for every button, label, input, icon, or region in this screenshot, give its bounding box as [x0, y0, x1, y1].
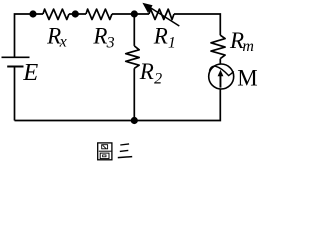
- meter M: [209, 64, 234, 89]
- svg-text:Rm: Rm: [229, 28, 254, 55]
- battery E plate long: [2, 56, 30, 58]
- node dot C: [131, 10, 138, 17]
- battery E plate short: [7, 66, 23, 68]
- wire R2 branch: [133, 14, 135, 46]
- resistor R3: [86, 9, 112, 19]
- wire left bottom: [14, 67, 16, 121]
- resistor Rm: [211, 35, 225, 58]
- svg-text:E: E: [22, 59, 38, 86]
- wire top right: [174, 14, 220, 35]
- svg-text:R1: R1: [153, 24, 176, 52]
- resistor R1 (variable): [149, 9, 174, 19]
- caption 圖三 figure 3: [98, 143, 133, 160]
- resistor Rx: [43, 9, 69, 19]
- svg-text:Rx: Rx: [46, 24, 67, 51]
- node dot A: [29, 10, 36, 17]
- svg-text:M: M: [237, 66, 257, 91]
- wire: [112, 13, 149, 15]
- svg-text:R2: R2: [139, 59, 162, 87]
- svg-text:R3: R3: [92, 24, 114, 52]
- node dot B: [72, 10, 79, 17]
- wire: [219, 59, 221, 64]
- resistor R2: [126, 46, 139, 68]
- node dot D: [131, 117, 138, 124]
- wire top left: [15, 14, 44, 57]
- wire: [133, 68, 135, 120]
- arrow of variable resistor R1: [142, 3, 179, 26]
- wire right bottom: [15, 89, 221, 121]
- wire: [69, 13, 86, 15]
